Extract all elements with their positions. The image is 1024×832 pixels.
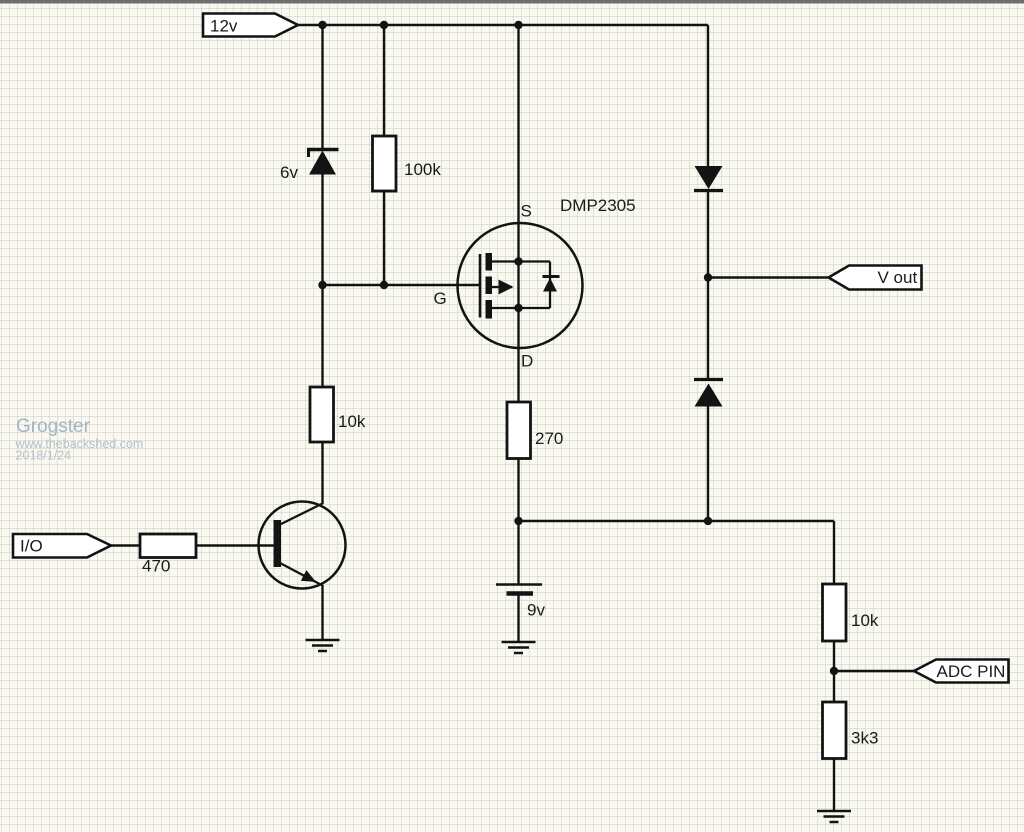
junction dot Vout <box>704 273 712 281</box>
resistor 470 <box>140 534 196 558</box>
node S internal <box>514 257 522 265</box>
diode D1 top right <box>694 166 723 191</box>
gate bar <box>479 254 482 318</box>
svg-text:D: D <box>521 352 533 371</box>
node D internal <box>514 304 522 312</box>
wire battery node to battery <box>517 521 519 584</box>
ground battery <box>502 642 536 653</box>
ground transistor emitter <box>306 640 340 651</box>
mosfet U1 DMP2305 <box>458 223 583 348</box>
wire Vout node to flag <box>708 276 829 278</box>
svg-text:10k: 10k <box>851 611 879 630</box>
resistor 270 <box>507 402 531 459</box>
wire Vout node down to D2 <box>707 278 709 380</box>
svg-text:100k: 100k <box>404 160 441 179</box>
resistor 3k3 <box>823 702 847 759</box>
svg-text:Grogster: Grogster <box>16 416 91 437</box>
svg-text:DMP2305: DMP2305 <box>560 196 636 215</box>
wire 100k bottom to gate wire <box>383 191 385 285</box>
flag I/O <box>13 534 111 558</box>
channel segment top <box>486 253 493 271</box>
ground 3k3 <box>817 811 851 822</box>
zener diode 6v <box>307 150 339 175</box>
junction dot rail-100k <box>380 21 388 29</box>
svg-text:12v: 12v <box>210 17 238 36</box>
source internal horizontal <box>489 260 550 262</box>
battery 9v <box>496 585 542 594</box>
wire zener drop from rail <box>321 25 323 150</box>
flag ADC PIN <box>914 660 1009 683</box>
svg-text:2018/1/24: 2018/1/24 <box>16 449 72 463</box>
emitter arrow <box>301 570 316 582</box>
svg-text:270: 270 <box>535 429 563 448</box>
resistor 10k left <box>310 387 334 442</box>
transistor Q1 <box>259 502 346 589</box>
flag V out <box>829 266 922 290</box>
emitter slant <box>280 563 323 586</box>
wire right turn down to 10k <box>833 521 835 584</box>
wire 3k3 to ground <box>833 758 835 810</box>
channel segment middle <box>486 277 493 295</box>
wire 470 to transistor base <box>196 544 274 546</box>
wire battery to ground <box>517 594 519 641</box>
resistor 100k <box>373 136 397 191</box>
wire right rail to diode D1 <box>707 25 709 167</box>
wire gate horizontal <box>323 284 481 286</box>
junction dot rail-zener <box>318 21 326 29</box>
junction dot gate-zener <box>318 281 326 289</box>
drain internal horizontal <box>489 307 550 309</box>
svg-text:3k3: 3k3 <box>851 729 878 748</box>
wire D1 to Vout node <box>707 191 709 278</box>
svg-text:I/O: I/O <box>20 537 43 556</box>
junction dot ADC node <box>830 667 838 675</box>
junction dot rail-source <box>514 21 522 29</box>
top gray strip <box>0 0 1024 4</box>
wire mosfet source drop from rail <box>517 25 519 223</box>
svg-text:ADC PIN: ADC PIN <box>937 662 1006 681</box>
wire emitter to ground <box>321 585 323 640</box>
svg-text:470: 470 <box>142 557 170 576</box>
wire top rail 12v <box>297 24 708 26</box>
wire 10k to transistor collector <box>321 442 323 504</box>
svg-text:10k: 10k <box>338 412 366 431</box>
wire mosfet internal vertical <box>517 223 519 348</box>
wire ADC node to flag <box>834 670 914 672</box>
wire gate node down to 10k <box>321 285 323 387</box>
resistor 10k right <box>823 584 847 641</box>
wire zener anode to gate node <box>321 173 323 285</box>
svg-text:6v: 6v <box>280 163 298 182</box>
arrow stem <box>489 286 512 288</box>
body diode cathode bar <box>543 275 560 278</box>
wire 10k to ADC node <box>833 641 835 703</box>
svg-text:G: G <box>434 289 447 308</box>
wire mosfet drain to 270 <box>517 348 519 402</box>
base bar <box>274 520 282 567</box>
flag 12v <box>203 14 298 37</box>
junction dot gate-100k <box>380 281 388 289</box>
wire D2 to bottom node <box>707 406 709 521</box>
wire 100k drop from rail <box>383 25 385 136</box>
svg-text:9v: 9v <box>527 601 545 620</box>
svg-text:S: S <box>521 202 532 221</box>
svg-text:V out: V out <box>878 268 918 287</box>
collector slant <box>280 504 323 525</box>
junction dot battery node <box>514 517 522 525</box>
diode D2 lower right <box>694 380 723 407</box>
body diode triangle <box>543 278 557 292</box>
wire battery node to right turn <box>519 520 835 522</box>
wire 270 to battery node <box>517 459 519 521</box>
channel segment bottom <box>486 300 493 319</box>
arrow head <box>499 280 514 295</box>
wire I/O flag to 470 <box>110 544 140 546</box>
junction dot bottom-diode <box>704 517 712 525</box>
body diode branch <box>549 262 551 309</box>
